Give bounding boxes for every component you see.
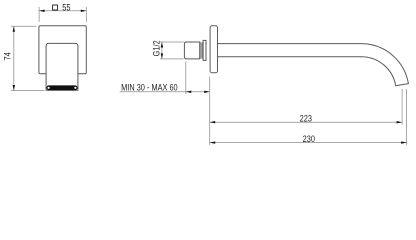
wall flange (side view) bbox=[210, 26, 217, 73]
dimension G1/2 arrows bbox=[161, 42, 163, 59]
aerator slot (black band) bbox=[46, 85, 77, 90]
dimension min-max arrows bbox=[186, 91, 210, 93]
dimension 74 line bbox=[13, 26, 15, 90]
dimension G1/2 line bbox=[161, 42, 163, 59]
dimension 230 arrows bbox=[210, 141, 407, 143]
spout tube (side view) bbox=[218, 44, 409, 86]
dimension min-max line bbox=[120, 91, 210, 93]
svg-text:223: 223 bbox=[300, 114, 313, 124]
svg-text:55: 55 bbox=[62, 3, 71, 13]
screw left bbox=[48, 87, 50, 89]
dimension 230 line bbox=[210, 142, 407, 144]
dimension 55 line bbox=[39, 10, 86, 12]
dimension min-max label bbox=[121, 83, 178, 93]
dimension 230 extension line bbox=[406, 89, 408, 145]
dimension 223 arrows bbox=[210, 121, 402, 123]
dimension 223 label bbox=[300, 114, 313, 124]
dimension 74 extension lines bbox=[11, 26, 45, 90]
dimension 55 label bbox=[53, 3, 71, 13]
dimension 55 extension lines bbox=[39, 7, 86, 22]
dimension G1/2 extension lines bbox=[160, 42, 184, 59]
dimension 74 arrows bbox=[13, 26, 15, 90]
svg-text:MIN 30 - MAX 60: MIN 30 - MAX 60 bbox=[121, 83, 178, 93]
washer bbox=[203, 40, 206, 60]
thread hatch lines bbox=[201, 42, 203, 58]
screw right bbox=[74, 87, 76, 89]
wall plate (front view square) bbox=[39, 26, 86, 74]
threaded inlet nipple (side view) bbox=[184, 42, 199, 59]
min-max extension line A bbox=[185, 62, 187, 95]
svg-text:74: 74 bbox=[3, 52, 13, 61]
svg-text:230: 230 bbox=[303, 134, 316, 144]
dimension G1/2 label bbox=[152, 40, 162, 56]
svg-text:G1/2: G1/2 bbox=[152, 40, 162, 56]
dimension 230 label bbox=[303, 134, 316, 144]
dimension 223 line bbox=[210, 121, 402, 123]
dimension 55 arrows bbox=[39, 10, 86, 12]
min-max extension line B bbox=[209, 77, 211, 146]
dimension 74 label bbox=[3, 52, 13, 61]
dimension 223 extension line bbox=[401, 89, 403, 125]
spout body (front view rectangle) bbox=[46, 43, 78, 90]
